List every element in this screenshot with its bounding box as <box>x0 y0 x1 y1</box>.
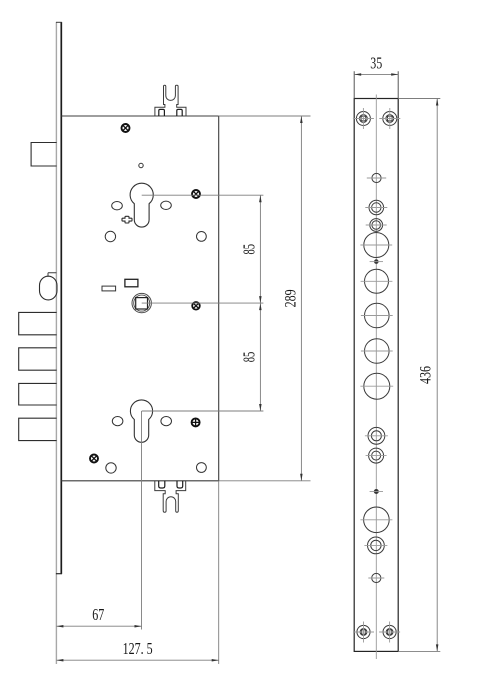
plate hole H1 <box>367 173 386 182</box>
svg-text:67: 67 <box>92 605 104 624</box>
plate bottom edge extension to 436 dim <box>398 650 440 652</box>
plate hole H14 <box>364 537 387 554</box>
dimension 127.5 line <box>56 659 218 661</box>
faceplate right edge (dark) <box>60 22 62 574</box>
faceplate bottom cap <box>56 573 62 575</box>
svg-text:289: 289 <box>283 289 300 307</box>
svg-text:85: 85 <box>240 244 259 255</box>
plate hole H7 <box>361 303 393 328</box>
screw S5 <box>90 455 98 463</box>
extension line body top to 289 dim <box>219 115 311 117</box>
deadbolt 4 <box>19 418 57 440</box>
upper euro cylinder keyhole <box>130 183 153 227</box>
dimension 35 line <box>354 73 398 75</box>
plate hole H2 <box>365 200 387 215</box>
plate screw hole top-left <box>353 108 374 129</box>
extension line body right edge down <box>218 481 220 664</box>
top fork contact <box>155 85 186 116</box>
deadbolt 1 <box>19 312 57 334</box>
dimension 85 lower line <box>259 303 261 411</box>
plus-shaped cutout <box>122 216 132 223</box>
faceplate top cap <box>56 21 62 23</box>
spindle follower square <box>136 298 148 309</box>
oval hole upper-right <box>161 201 172 209</box>
extension line cylinder centerline down <box>141 411 143 630</box>
plate hole H3 <box>366 219 387 232</box>
screw S2 <box>192 190 200 198</box>
extension line upper keyhole center <box>142 194 264 196</box>
small pilot hole <box>139 163 143 167</box>
plate tiny hole H5 <box>370 260 383 264</box>
plate hole H6 <box>361 269 393 293</box>
hole C3 <box>106 463 116 473</box>
svg-text:35: 35 <box>370 54 382 73</box>
oval hole lower-right <box>161 417 172 426</box>
dimension 289 line <box>300 116 302 481</box>
lower euro cylinder keyhole <box>130 400 152 442</box>
dimension 67 line <box>56 625 141 627</box>
hole C4 <box>197 463 207 473</box>
extension line follower center <box>142 302 264 304</box>
screw S4 <box>191 418 199 426</box>
deadlatch pin housing <box>48 273 56 277</box>
spindle follower inner circle <box>134 295 150 311</box>
plate hole H8 <box>361 339 393 364</box>
lock body bottom edge <box>61 480 218 482</box>
deadbolt 2 <box>19 348 57 370</box>
deadlatch pin <box>40 276 58 300</box>
faceplate left edge (light) <box>55 22 57 664</box>
plate screw hole top-right <box>379 108 400 129</box>
plate hole H10 <box>365 427 388 444</box>
oval hole upper-left <box>112 202 123 210</box>
small rect cutout B <box>125 279 138 287</box>
spindle follower outer circle <box>132 293 151 312</box>
plate hole H13 <box>360 507 392 533</box>
dimension 85 upper line <box>259 195 261 303</box>
screw S1 <box>122 124 130 132</box>
extension line lower keyhole center <box>142 410 264 412</box>
plate hole H15 <box>368 573 384 582</box>
screw S3 <box>192 302 200 310</box>
svg-text:127. 5: 127. 5 <box>123 639 153 658</box>
plate screw hole bottom-left <box>353 622 374 643</box>
strike plate centerline <box>375 95 377 660</box>
lock body right edge <box>218 116 220 481</box>
hole C1 <box>105 231 115 241</box>
svg-text:85: 85 <box>240 352 259 363</box>
lock body top edge <box>61 115 218 117</box>
plate top edge extension to 436 dim <box>398 98 440 100</box>
latch bolt <box>31 143 56 167</box>
oval hole lower-left <box>112 417 123 426</box>
extension line body bottom to 289 dim <box>219 480 311 482</box>
plate hole H11 <box>366 448 387 463</box>
svg-text:436: 436 <box>418 366 435 384</box>
plate hole H9 <box>360 373 393 399</box>
small rect cutout A <box>102 286 116 291</box>
plate hole H4 <box>360 233 392 258</box>
plate tiny hole H12 <box>370 490 383 494</box>
bottom fork contact <box>155 481 186 513</box>
strike plate outline <box>354 99 398 652</box>
dimension 436 line <box>436 99 438 652</box>
plate screw hole bottom-right <box>379 622 400 643</box>
hole C2 <box>197 232 207 242</box>
extension lines up to 35 dim <box>354 71 398 98</box>
deadbolt 3 <box>19 383 57 405</box>
